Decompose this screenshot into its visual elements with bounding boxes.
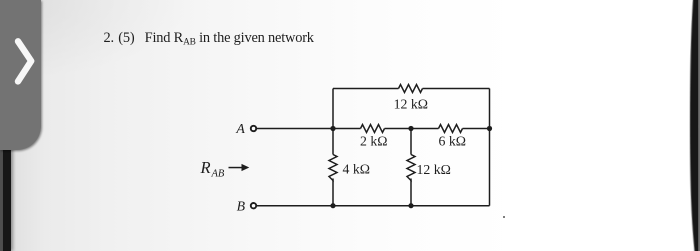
wire A lead: [257, 128, 333, 130]
svg-text:4 kΩ: 4 kΩ: [343, 161, 371, 176]
svg-text:A: A: [235, 121, 245, 136]
svg-text:B: B: [237, 199, 246, 214]
wire B lead (bottom rail left): [257, 205, 333, 207]
wire 4k to bottom rail: [332, 181, 334, 206]
value 6 kOhm: [439, 133, 467, 148]
terminal A: [251, 126, 256, 131]
wire 6k to right rail: [463, 128, 490, 130]
wire right vertical: [489, 89, 491, 206]
resistor 6 kOhm: [439, 125, 463, 133]
arrow RAB: [229, 164, 250, 171]
wire node1 to 2k: [333, 128, 361, 130]
wire top rail right: [423, 88, 490, 90]
value 2 kOhm: [360, 133, 388, 148]
junction node2 bottom: [408, 203, 413, 208]
label node B: [237, 199, 246, 214]
svg-text:12 kΩ: 12 kΩ: [394, 97, 428, 112]
svg-text:6 kΩ: 6 kΩ: [439, 133, 467, 148]
junction node1 bottom: [330, 203, 335, 208]
svg-text:AB: AB: [211, 169, 225, 180]
wire left vertical top (node1 to top rail): [332, 89, 334, 129]
junction node1: [330, 126, 335, 131]
wire bottom rail: [333, 205, 490, 207]
label RAB: [200, 158, 225, 180]
wire 12k to bottom rail: [410, 181, 412, 206]
value 12 kOhm top: [394, 97, 428, 112]
svg-text:2 kΩ: 2 kΩ: [360, 133, 388, 148]
terminal B: [251, 203, 256, 208]
svg-text:12 kΩ: 12 kΩ: [417, 162, 451, 177]
resistor 2 kOhm: [361, 125, 385, 133]
wire 2k to node2: [385, 128, 439, 130]
junction node2: [408, 126, 413, 131]
value 12 kOhm vertical: [417, 162, 451, 177]
wire node1 down: [332, 129, 334, 155]
wire top rail left: [333, 88, 399, 90]
value 4 kOhm: [343, 161, 371, 176]
label node A: [235, 121, 245, 136]
junction node3 (right mid): [487, 126, 492, 131]
svg-text:R: R: [200, 158, 211, 177]
resistor 4 kOhm (vertical): [329, 155, 337, 181]
resistor 12 kOhm top: [399, 85, 423, 93]
resistor 12 kOhm (vertical): [407, 155, 415, 181]
wire node2 down: [410, 129, 412, 155]
